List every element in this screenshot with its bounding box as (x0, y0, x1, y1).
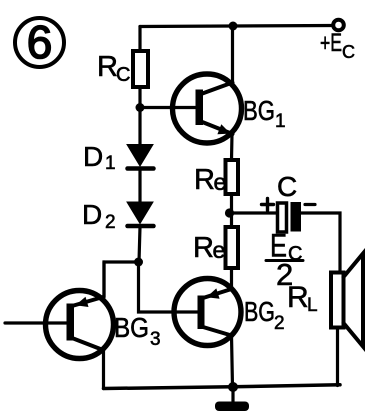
speaker RL (331, 254, 363, 347)
svg-text:6: 6 (27, 16, 53, 68)
svg-text:BG: BG (244, 296, 275, 327)
label plus (0, 0, 1, 1)
wire capacitor to speaker (301, 213, 340, 273)
diode D1 (127, 145, 154, 169)
svg-text:L: L (307, 295, 318, 316)
wire node A to BG2 base (139, 262, 199, 312)
svg-text:R: R (287, 281, 309, 314)
svg-text:BG: BG (243, 95, 275, 126)
label RL (287, 281, 318, 316)
ground (215, 387, 249, 411)
resistor RC (133, 51, 148, 87)
resistor Re lower (226, 227, 239, 268)
svg-text:C: C (116, 64, 130, 86)
svg-text:D: D (82, 199, 102, 230)
wire BG3 emitter up to node A branch (102, 262, 105, 297)
svg-text:e: e (214, 169, 227, 195)
wire RC bottom (138, 87, 141, 145)
label +Ec (320, 29, 355, 62)
svg-text:2: 2 (274, 313, 285, 334)
svg-text:R: R (193, 232, 214, 264)
svg-text:3: 3 (150, 329, 161, 350)
label Ec/2 (270, 228, 302, 293)
label BG3 (114, 312, 161, 350)
transistor BG3 (46, 291, 114, 359)
wire input stub (5, 321, 67, 324)
wire output to capacitor (231, 211, 277, 214)
node output junction (225, 208, 234, 217)
label Re upper (194, 164, 226, 196)
capacitor C (278, 202, 302, 232)
wire BG1 collector (231, 26, 234, 83)
wire BG3 collector down to rail (102, 350, 105, 389)
svg-text:1: 1 (275, 111, 286, 132)
svg-text:+E: +E (320, 29, 342, 57)
label D1 (83, 141, 116, 174)
svg-text:2: 2 (105, 212, 116, 233)
transistor BG1 (173, 74, 242, 143)
wire RC top (138, 27, 141, 52)
svg-text:e: e (213, 237, 226, 263)
node A junction (134, 258, 143, 267)
wire Re upper to output node (230, 194, 233, 227)
svg-text:R: R (97, 51, 118, 83)
resistor Re upper (226, 160, 239, 194)
label D2 (82, 199, 116, 233)
label BG1 (243, 95, 286, 132)
diode D2 (127, 202, 154, 226)
wire speaker to bottom rail (336, 328, 339, 386)
label Re lower (193, 232, 225, 264)
label RC (97, 51, 130, 86)
wire D2 to node A (139, 227, 140, 262)
svg-text:R: R (194, 164, 215, 196)
node BG1 base junction (136, 103, 145, 112)
label minus (305, 203, 315, 206)
transistor BG2 (174, 279, 241, 346)
svg-text:1: 1 (105, 153, 116, 174)
figure number 6 (15, 16, 64, 68)
wire D1 to D2 (138, 170, 141, 202)
wire BG1 base (140, 106, 197, 109)
wire bottom rail (104, 385, 341, 389)
svg-text:C: C (342, 42, 355, 62)
wire BG1 emitter to Re (230, 134, 234, 160)
wire Re lower to BG2 emitter (230, 268, 233, 289)
node top rail junction (229, 22, 238, 31)
svg-text:BG: BG (114, 312, 149, 343)
terminal +Ec (333, 20, 344, 31)
label BG2 (244, 296, 285, 334)
wire top rail (140, 26, 333, 27)
svg-text:D: D (83, 141, 103, 172)
wire node A to BG3 collector (104, 262, 139, 297)
svg-text:C: C (277, 171, 297, 202)
node ground junction (228, 382, 238, 392)
wire BG2 collector to rail (232, 336, 233, 388)
